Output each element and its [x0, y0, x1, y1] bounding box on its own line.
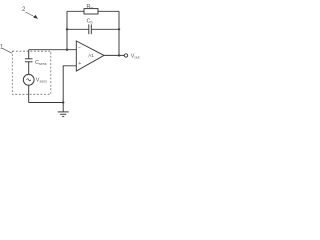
svg-text:2: 2: [22, 7, 26, 13]
svg-text:Csens: Csens: [35, 60, 47, 66]
svg-text:1: 1: [0, 45, 4, 51]
svg-text:Vsens: Vsens: [36, 77, 47, 83]
svg-text:Rb: Rb: [87, 4, 94, 10]
svg-text:Cb: Cb: [87, 19, 94, 25]
svg-text:A1: A1: [88, 53, 94, 58]
svg-text:Vout: Vout: [131, 54, 140, 60]
svg-text:+: +: [78, 61, 81, 67]
svg-text:−: −: [78, 45, 81, 51]
